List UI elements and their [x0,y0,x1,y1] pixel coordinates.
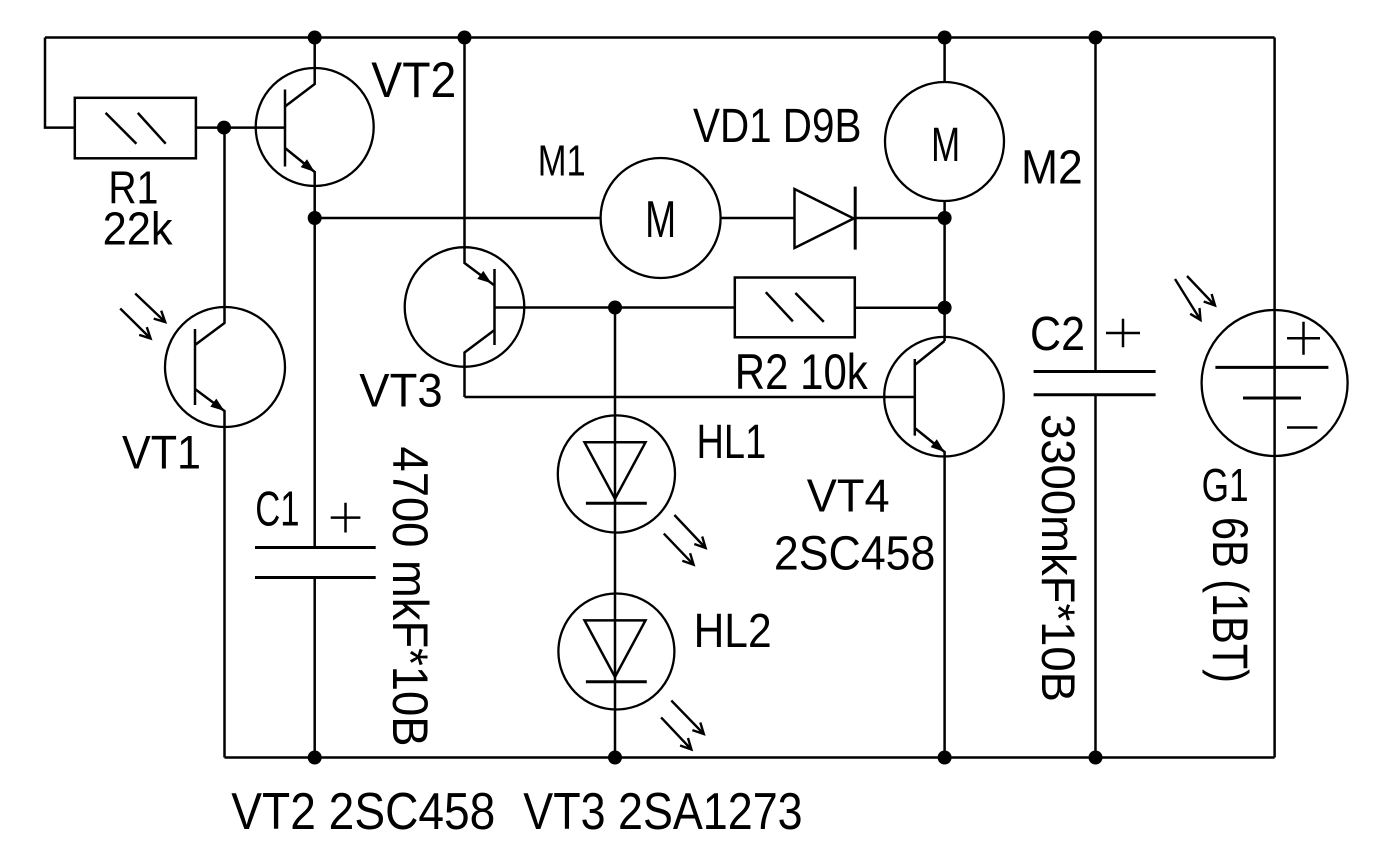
svg-text:M: M [645,191,676,249]
svg-text:C2: C2 [1030,308,1085,361]
wire VT2 emitter to M1 [315,217,601,220]
wire VT2 emitter down to C1 [313,218,316,548]
node C1 on ground rail [308,751,322,765]
phototransistor VT1 [165,307,285,427]
LED HL1 [558,415,675,532]
wire VT1 emitter down to ground rail [223,427,226,758]
svg-text:M2: M2 [1021,142,1083,195]
transistor VT3 [405,38,525,398]
diode VD1 [795,187,856,250]
wire R2 to VT4 collector junction [855,306,945,309]
node HL2 on ground rail [608,751,622,765]
wire VT3 base to R2 [495,306,735,309]
svg-text:VT3 2SA1273: VT3 2SA1273 [523,783,802,841]
resistor R2 [735,278,855,338]
plus sign G1 [1287,322,1320,355]
svg-text:VT2: VT2 [371,52,456,108]
node C2 on rail [1089,31,1103,45]
wire top supply rail [45,36,1275,39]
light arrows into VT1 [135,294,165,323]
svg-text:VD1 D9B: VD1 D9B [693,100,861,153]
wire R1 to VT2 base [196,126,285,129]
svg-text:22k: 22k [103,203,174,255]
wire junction down to VT1 collector [223,128,226,308]
node VT2 collector on rail [308,31,322,45]
svg-text:6B (1BT): 6B (1BT) [1202,517,1258,683]
motor M2 [885,82,1004,201]
minus sign G1 [1287,426,1317,429]
solar battery G1 [1202,38,1348,758]
svg-text:4700 mkF*10B: 4700 mkF*10B [382,447,438,747]
LED HL2 [558,594,674,710]
light arrows out of HL2 [671,701,704,735]
motor M1 [601,158,721,278]
node C2 on ground rail [1089,751,1103,765]
transistor VT2 [256,38,374,219]
wire rail to M2 top [943,38,946,83]
wire C1 bottom to ground rail [313,578,316,758]
svg-text:VT2 2SC458: VT2 2SC458 [231,783,495,841]
svg-text:HL2: HL2 [694,605,772,658]
node VT3 emitter on rail [458,31,472,45]
light arrows out of HL1 [674,515,705,548]
node M2/VD1 junction [938,211,952,225]
capacitor C1 [255,548,376,578]
capacitor C2 [1034,38,1156,758]
wire left feedback drop [45,38,75,128]
transistor VT4 [884,337,1004,758]
wire junction down through LEDs to ground [614,308,617,758]
node R1/VT2/VT1 junction [217,121,231,135]
wire ground bottom rail [225,756,1275,759]
node VT4 emitter on ground rail [938,751,952,765]
plus sign C2 [1106,319,1140,348]
svg-text:C1: C1 [255,483,299,537]
svg-text:2SC458: 2SC458 [774,528,936,581]
svg-text:M1: M1 [538,137,586,186]
svg-text:G1: G1 [1202,459,1249,511]
svg-text:VT3: VT3 [359,363,442,416]
resistor R1 [75,98,196,159]
node R2/VT4 collector junction [938,301,952,315]
wire M2 bottom down to VT4 collector [943,201,946,341]
node M2 on rail [938,31,952,45]
node VT2 emitter junction [308,211,322,225]
svg-text:HL1: HL1 [697,416,767,469]
wire VT3 collector to VT4 base [465,396,915,399]
wire M1 to VD1 [721,217,795,220]
plus sign C1 [331,503,361,533]
svg-text:VT1: VT1 [122,425,201,478]
node VT3 base / HL1 junction [608,301,622,315]
light arrows into G1 [1175,279,1201,320]
svg-text:M: M [931,119,960,172]
svg-text:3300mkF*10B: 3300mkF*10B [1032,414,1085,702]
wire VD1 to M2 bottom junction [855,217,944,220]
svg-text:VT4: VT4 [807,470,890,522]
svg-text:R2 10k: R2 10k [735,344,869,400]
